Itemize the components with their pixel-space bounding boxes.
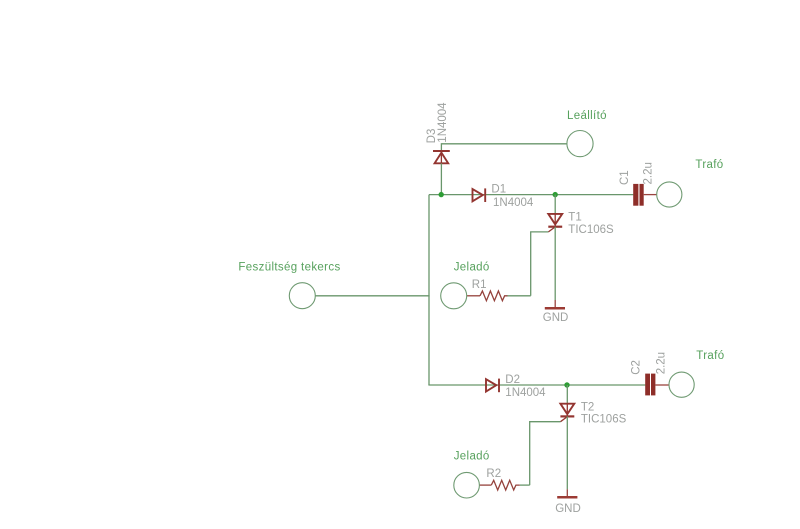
thyristor T2 [560, 404, 574, 422]
svg-text:R1: R1 [472, 279, 487, 291]
wire T1 anode from junction B [554, 195, 556, 214]
wire Leallito net horizontal [441, 143, 567, 145]
wire T2 anode from junction C [566, 385, 568, 404]
svg-text:TIC106S: TIC106S [581, 414, 627, 426]
svg-text:C1: C1 [619, 170, 631, 185]
wire upper main rail [429, 194, 633, 196]
svg-text:Trafó: Trafó [696, 350, 724, 362]
diode D3 [433, 151, 450, 163]
wire C1 right pin [644, 194, 657, 196]
svg-text:1N4004: 1N4004 [505, 387, 546, 399]
wire R1 right segment [508, 295, 531, 297]
capacitor C2 plates [645, 374, 655, 396]
svg-text:Trafó: Trafó [695, 159, 723, 171]
svg-text:2.2u: 2.2u [656, 352, 668, 374]
svg-text:GND: GND [543, 312, 569, 324]
svg-text:D1: D1 [491, 183, 506, 195]
wire lower main rail [428, 384, 645, 386]
wire T2 cathode to ground [566, 416, 568, 489]
thyristor T1 [548, 214, 562, 232]
svg-text:1N4004: 1N4004 [493, 197, 534, 209]
svg-text:D2: D2 [505, 374, 520, 386]
node junction C [564, 382, 569, 387]
svg-text:Jeladó: Jeladó [454, 451, 490, 463]
svg-text:TIC106S: TIC106S [568, 224, 614, 236]
wire GND1 pin [554, 300, 556, 307]
wire D3 top stub [440, 143, 442, 151]
capacitor C1 plates [633, 184, 644, 206]
svg-text:Feszültség tekercs: Feszültség tekercs [238, 262, 340, 274]
diode D1 [473, 188, 486, 202]
wire Feszultseg net [315, 295, 429, 297]
node Jelado upper pad circle [441, 283, 467, 309]
node Leallito pad circle [567, 131, 593, 157]
diode D2 [486, 379, 499, 393]
wire left vertical drop [428, 195, 430, 385]
svg-text:Leállító: Leállító [567, 110, 607, 122]
svg-text:2.2u: 2.2u [643, 162, 655, 184]
svg-text:T2: T2 [581, 401, 594, 413]
svg-text:1N4004: 1N4004 [437, 102, 449, 143]
wire T1 cathode to ground [554, 227, 556, 300]
wire T2 gate net [530, 422, 561, 485]
node Jelado lower pad circle [454, 472, 480, 498]
resistor R1 [467, 291, 508, 301]
node Feszultseg tekercs pad circle [289, 283, 315, 309]
wire R2 right segment [520, 484, 530, 486]
wire T1 gate net [531, 232, 549, 296]
wire D3 cathode to junction A [440, 163, 442, 195]
svg-text:R2: R2 [486, 468, 501, 480]
svg-text:GND: GND [555, 503, 581, 515]
svg-text:T1: T1 [568, 212, 581, 224]
wire GND2 pin [566, 489, 568, 496]
ground GND2 [557, 496, 577, 499]
node Trafo upper pad circle [657, 182, 682, 207]
svg-text:Jeladó: Jeladó [454, 261, 490, 273]
resistor R2 [480, 480, 520, 490]
node Trafo lower pad circle [669, 372, 694, 397]
wire C2 right pin [655, 384, 669, 386]
svg-text:C2: C2 [631, 360, 643, 375]
ground GND1 [545, 307, 565, 310]
node junction A [439, 192, 444, 197]
node junction B [553, 192, 558, 197]
